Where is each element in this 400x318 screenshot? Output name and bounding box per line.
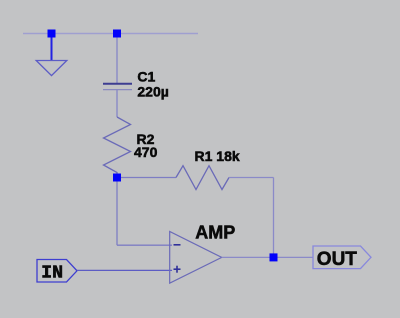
label C1 value bbox=[137, 69, 168, 100]
resistor R1 bbox=[176, 166, 229, 190]
port OUT bbox=[313, 246, 371, 269]
svg-text:R1 18k: R1 18k bbox=[195, 148, 240, 164]
svg-text:470: 470 bbox=[134, 144, 158, 160]
wire IN to plus input bbox=[77, 269, 172, 271]
wire ground stub bbox=[51, 38, 53, 61]
wire opamp output bbox=[222, 256, 313, 258]
wire junction down to minus input bbox=[116, 182, 118, 246]
wire R1 to feedback vertical bbox=[229, 177, 274, 179]
svg-text:AMP: AMP bbox=[195, 223, 235, 243]
svg-text:OUT: OUT bbox=[317, 249, 358, 270]
wire C1 to R2 bbox=[116, 90, 118, 117]
node junction square at rail / C1 bbox=[113, 30, 121, 38]
node junction square R2 / R1 / opamp minus bbox=[113, 174, 121, 182]
svg-text:IN: IN bbox=[41, 263, 63, 283]
wire top power rail bbox=[23, 33, 198, 35]
wire rail to C1 top plate bbox=[116, 38, 118, 84]
op-amp U1 AMP bbox=[170, 232, 222, 284]
wire to opamp minus input bbox=[117, 244, 172, 246]
resistor R2 bbox=[104, 117, 131, 174]
wire junction to R1 bbox=[121, 177, 176, 179]
ground bbox=[36, 61, 67, 76]
node junction square output / feedback bbox=[270, 253, 278, 261]
wire feedback vertical bbox=[273, 178, 275, 255]
svg-text:C1: C1 bbox=[137, 69, 155, 85]
label R2 value bbox=[134, 131, 158, 160]
capacitor C1 bbox=[103, 84, 132, 90]
port IN bbox=[37, 260, 77, 283]
svg-text:220µ: 220µ bbox=[137, 84, 168, 100]
node junction square at rail / ground bbox=[48, 30, 56, 38]
